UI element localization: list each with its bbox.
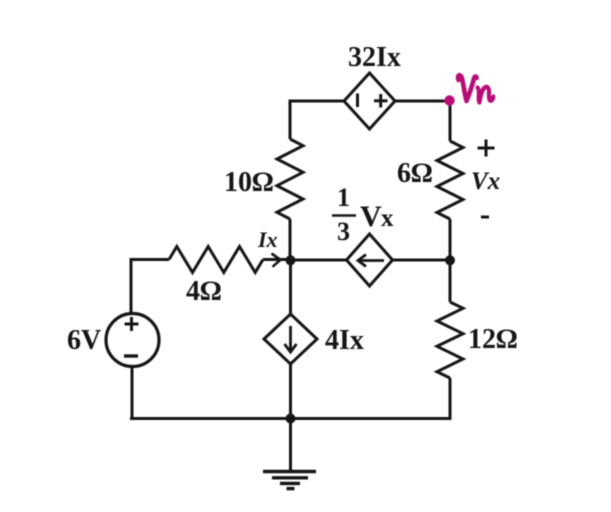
wire: bottom rail <box>130 417 452 420</box>
svg-text:Vx: Vx <box>471 168 500 195</box>
wire: center node down to 4Ix source <box>289 260 292 314</box>
wire: 4-ohm to center node <box>263 258 291 261</box>
wire: 12-ohm to bottom right corner <box>449 378 452 420</box>
wire: middle horizontal from center node to 1/3Vx source <box>290 259 347 262</box>
4Ix arrow (points down) <box>285 326 297 352</box>
wire: 1/3Vx source to right middle node <box>393 259 451 262</box>
dependent current source 4Ix (diamond) <box>264 314 317 364</box>
wire: 6-ohm to right middle node <box>449 219 452 260</box>
Vx plus sign <box>478 140 495 157</box>
svg-text:4Ω: 4Ω <box>186 276 222 307</box>
wire: left rail top (from 6V + terminal up to 4-ohm wire) <box>130 260 133 313</box>
svg-text:V: V <box>360 200 382 233</box>
wire: top horizontal from center rail to 32Ix source <box>289 100 345 103</box>
1/3Vx arrow (points left) <box>358 255 384 267</box>
current arrow Ix <box>272 254 281 267</box>
node: bottom center node <box>286 414 296 424</box>
resistor R3 6ohm <box>437 141 463 219</box>
wire: right rail between middle node and 12-ohm <box>449 260 452 302</box>
wire: right rail top lead (Vn down to 6-ohm) <box>449 101 452 141</box>
svg-text:6V: 6V <box>67 325 101 356</box>
node: center node <box>286 255 296 265</box>
wire: center rail top lead (corner to 10-ohm) <box>289 101 292 139</box>
node Vn (handwritten magenta dot) <box>444 95 454 105</box>
V1 plus sign <box>125 317 139 331</box>
32Ix plus sign <box>374 94 388 108</box>
svg-text:6Ω: 6Ω <box>397 158 433 189</box>
svg-text:12Ω: 12Ω <box>468 324 518 355</box>
svg-text:32Ix: 32Ix <box>348 42 401 73</box>
V1 minus sign <box>124 354 138 357</box>
resistor R4 12ohm <box>437 302 463 378</box>
wire: 32Ix source to node Vn <box>395 100 450 103</box>
svg-text:x: x <box>381 205 394 232</box>
dependent voltage source 32Ix (diamond) <box>344 73 395 129</box>
svg-text:10Ω: 10Ω <box>224 167 274 198</box>
label Vn (handwritten) <box>458 75 493 102</box>
svg-text:Ix: Ix <box>257 227 278 252</box>
wire: left rail bottom (6V - terminal down to bottom rail) <box>131 367 134 418</box>
ground symbol <box>263 472 316 489</box>
node: right middle node <box>445 255 455 265</box>
dependent current source 1/3 Vx (diamond) <box>347 234 393 286</box>
wire: ground stem <box>289 418 292 471</box>
resistor R2 10ohm <box>277 139 303 219</box>
resistor R1 4ohm <box>169 247 263 273</box>
svg-text:3: 3 <box>337 217 350 246</box>
Vx minus sign <box>481 216 489 219</box>
wire: 4Ix source down to bottom node <box>289 364 292 420</box>
wire: 10-ohm down to center node <box>289 219 292 260</box>
voltage source V1 6V <box>106 314 159 367</box>
svg-text:1: 1 <box>337 183 350 212</box>
wire: top-left horizontal lead into 4-ohm <box>130 258 170 261</box>
32Ix minus bar <box>356 94 359 108</box>
svg-text:4Ix: 4Ix <box>325 325 364 356</box>
